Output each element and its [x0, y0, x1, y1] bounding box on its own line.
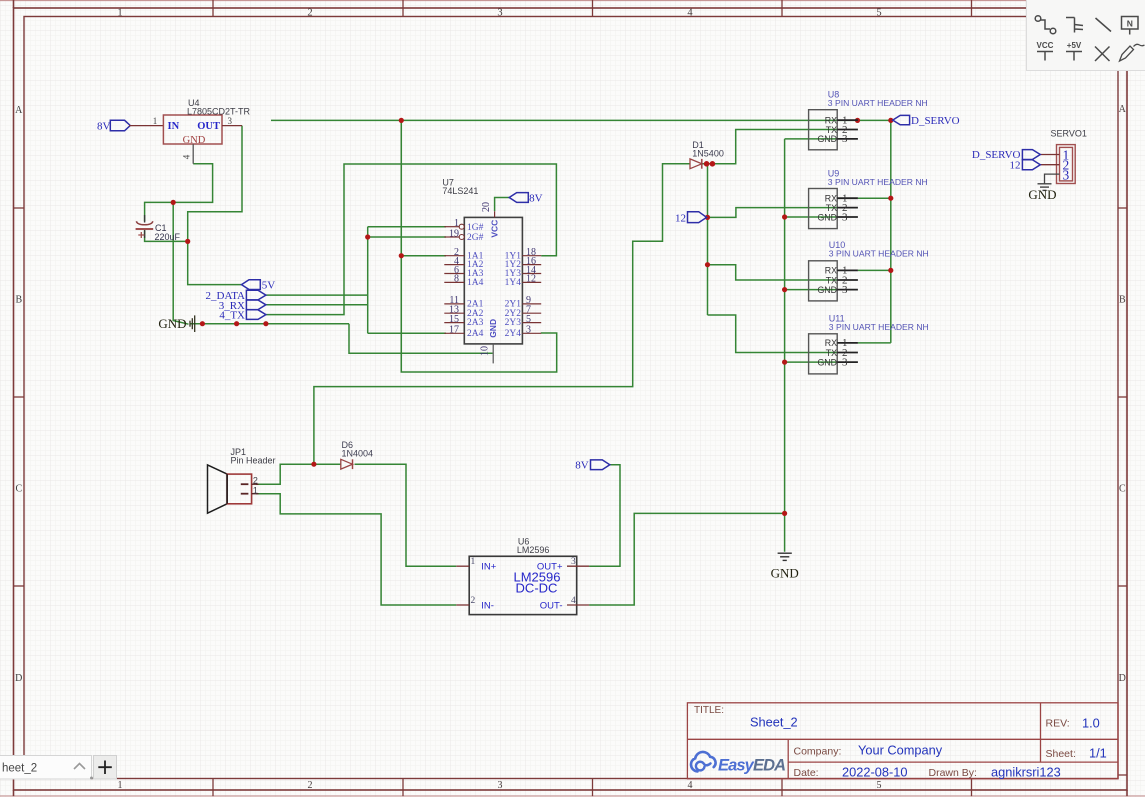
svg-text:Your Company: Your Company — [858, 743, 943, 758]
svg-text:8V: 8V — [529, 193, 543, 205]
U7 right pin stubs — [522, 256, 541, 334]
wire 12 net to U9 TX — [708, 208, 838, 218]
svg-text:+5V: +5V — [1067, 41, 1082, 50]
svg-text:2022-08-10: 2022-08-10 — [842, 765, 907, 780]
pin3 wire to gnd — [1045, 174, 1060, 183]
svg-text:IN+: IN+ — [481, 562, 497, 573]
svg-text:GND: GND — [817, 285, 837, 295]
wire U4 OUT to 5V flag — [188, 126, 242, 285]
regulator U4 L7805CD2T-TR — [153, 98, 251, 159]
wire D1 cathode to U8 TX — [702, 130, 837, 164]
svg-text:3: 3 — [842, 284, 848, 296]
wire pin stub U4 pin3 — [222, 125, 242, 127]
connector SERVO1 — [1041, 129, 1087, 184]
node junction U11 GND — [782, 360, 787, 365]
wire ground rail to U7 pin10 — [349, 324, 493, 354]
U7 inverting bubble pin 19 — [459, 235, 464, 240]
svg-text:GND: GND — [1028, 187, 1056, 202]
svg-text:3: 3 — [571, 557, 576, 567]
svg-text:1N4004: 1N4004 — [342, 449, 374, 459]
wire pin stub U4 pin4 — [192, 144, 194, 164]
diode D6 1N4004 — [341, 440, 373, 469]
wire C1 bottom to 5V net junction — [145, 231, 188, 242]
wire U7 pin2 branch — [401, 255, 446, 257]
capacitor C1 220uF — [136, 215, 181, 242]
wire D6 cathode to U6 IN+ — [355, 464, 457, 566]
U8 pin labels RX TX GND — [817, 115, 837, 144]
svg-text:3 PIN UART HEADER NH: 3 PIN UART HEADER NH — [828, 98, 928, 108]
speaker body — [208, 465, 228, 513]
node junction 12 net U10 branch — [705, 262, 710, 267]
svg-text:4: 4 — [182, 154, 192, 159]
svg-text:8: 8 — [454, 274, 459, 285]
svg-text:Pin Header: Pin Header — [231, 456, 276, 466]
wire 12 net to U10 TX — [708, 265, 838, 280]
U9 pin labels RX TX GND — [817, 194, 837, 223]
svg-text:1: 1 — [253, 485, 258, 495]
U11 pin labels RX TX GND — [817, 338, 837, 367]
port 4_TX flag — [219, 310, 266, 322]
svg-text:DC-DC: DC-DC — [516, 581, 558, 596]
port D_SERVO flag at SERVO1 — [972, 149, 1040, 161]
svg-text:5V: 5V — [262, 280, 276, 292]
node junction U10 GND — [782, 287, 787, 292]
svg-text:3: 3 — [1063, 168, 1070, 183]
wire 3_RX flag to enable vertical — [266, 304, 368, 306]
svg-text:2: 2 — [471, 596, 476, 606]
svg-text:2Y4: 2Y4 — [505, 329, 522, 339]
svg-text:L7805CD2T-TR: L7805CD2T-TR — [187, 107, 251, 117]
svg-text:2: 2 — [308, 780, 313, 791]
svg-text:B: B — [1119, 295, 1126, 306]
svg-text:20: 20 — [481, 202, 492, 212]
pin header JP1 — [208, 447, 276, 513]
svg-text:A: A — [15, 105, 23, 116]
ground symbol SERVO1 earth — [1038, 184, 1052, 191]
U10 pin stubs — [837, 270, 858, 289]
svg-text:1.0: 1.0 — [1082, 716, 1100, 731]
svg-text:12: 12 — [675, 213, 686, 225]
EasyEDA logo — [691, 752, 786, 775]
uart header U9 — [809, 169, 928, 229]
svg-text:RX: RX — [825, 266, 837, 276]
U7 pin 10 stub — [492, 344, 494, 364]
wire U8 GND to ground vertical — [785, 138, 838, 140]
SERVO1 body — [1057, 145, 1076, 184]
svg-text:3 PIN UART HEADER NH: 3 PIN UART HEADER NH — [829, 249, 929, 259]
icon pencil tool — [1120, 44, 1145, 61]
U7 left pin stubs — [444, 227, 464, 334]
ground symbol right earth — [778, 553, 792, 560]
icon +5V symbol — [1066, 52, 1082, 61]
port 12 flag near D1 — [675, 212, 707, 225]
node junction 12 flag tip — [705, 215, 710, 220]
svg-text:220uF: 220uF — [155, 232, 181, 242]
U8 pin numbers 1 2 3 — [842, 114, 848, 145]
icon netlabel tool — [1122, 17, 1139, 35]
node junction GND net at C1 top — [171, 200, 176, 205]
buffer U7 74LS241 — [442, 178, 541, 364]
wire JP1 pin1 to U6 IN- — [256, 494, 456, 605]
wire D6 junction up to D1 anode — [314, 164, 690, 464]
wire top line to U7 pin2 and loop to pin3 — [401, 120, 556, 372]
svg-text:1: 1 — [117, 7, 122, 18]
svg-text:RX: RX — [825, 338, 837, 348]
svg-text:Sheet:: Sheet: — [1046, 748, 1076, 760]
svg-text:3 PIN UART HEADER NH: 3 PIN UART HEADER NH — [828, 177, 928, 187]
svg-text:1/1: 1/1 — [1089, 746, 1107, 761]
svg-text:A: A — [1119, 104, 1127, 115]
svg-text:heet_2: heet_2 — [2, 763, 37, 775]
svg-text:3: 3 — [497, 7, 502, 18]
svg-text:Sheet_2: Sheet_2 — [750, 715, 798, 730]
svg-text:2A3: 2A3 — [467, 318, 484, 328]
wire D_SERVO to U11 RX — [858, 342, 891, 344]
node junction C1 bottom 5V net — [185, 239, 190, 244]
wire 4_TX flag up and over to U7 pin 18 — [266, 164, 557, 315]
svg-text:1Y4: 1Y4 — [505, 278, 522, 288]
icon wire tool — [1035, 16, 1056, 34]
icon line tool — [1096, 18, 1112, 32]
wire net 8V-rail top long line U4 area to U8 RX — [271, 119, 858, 121]
U10 pin numbers 1 2 3 — [842, 265, 848, 296]
wire 12 net to U11 TX — [708, 315, 838, 353]
svg-text:3 PIN UART HEADER NH: 3 PIN UART HEADER NH — [829, 322, 929, 332]
wire U11 GND branch — [785, 361, 838, 363]
node junction D_SERVO flag — [888, 118, 893, 123]
svg-text:19: 19 — [449, 228, 459, 239]
svg-text:GND: GND — [771, 566, 799, 581]
node junction D1 cathode b — [710, 161, 716, 167]
dcdc U6 LM2596 — [456, 536, 589, 614]
svg-text:2G#: 2G# — [467, 233, 484, 243]
svg-text:Drawn By:: Drawn By: — [929, 767, 977, 779]
svg-text:TX: TX — [826, 275, 837, 285]
U8 pin stubs — [837, 120, 858, 139]
U7 pin numbers left — [449, 218, 459, 336]
svg-text:GND: GND — [488, 319, 498, 338]
wire ground vertical right side — [784, 139, 786, 552]
svg-text:GND: GND — [817, 357, 837, 367]
wire U4 GND pin to C1 top — [145, 164, 213, 222]
wire ground to U6 OUT- — [589, 513, 785, 605]
svg-text:4: 4 — [571, 596, 576, 606]
svg-text:8V: 8V — [575, 460, 589, 472]
node junction ground rail 3 — [263, 321, 268, 326]
title block — [687, 703, 1118, 780]
svg-text:3: 3 — [227, 116, 232, 126]
svg-text:3: 3 — [498, 780, 503, 791]
svg-text:OUT-: OUT- — [540, 600, 563, 611]
sheet tab bottom left — [0, 756, 117, 780]
svg-text:IN: IN — [168, 121, 180, 132]
svg-text:GND: GND — [183, 135, 206, 146]
svg-text:EasyEDA: EasyEDA — [718, 757, 786, 775]
node junction U9 RX — [888, 196, 893, 201]
svg-text:1: 1 — [153, 116, 158, 126]
svg-text:10: 10 — [480, 346, 491, 356]
svg-text:D: D — [15, 673, 22, 684]
wire ground rail — [190, 323, 349, 325]
svg-text:GND: GND — [817, 134, 837, 144]
svg-text:5: 5 — [526, 314, 531, 325]
svg-text:Company:: Company: — [794, 746, 842, 758]
node junction U8 pin1 — [855, 118, 860, 123]
svg-text:IN-: IN- — [481, 600, 494, 611]
wire U10 GND branch — [785, 289, 838, 291]
port 8V flag at U6 — [575, 460, 610, 472]
port 5V flag — [242, 280, 276, 292]
port 8V input flag left — [97, 120, 130, 132]
icon bus entry tool — [1066, 18, 1083, 33]
wire JP1 pin2 to D6 anode and D1 — [256, 464, 341, 484]
U7 pin 20 stub — [494, 211, 496, 217]
U9 pin stubs — [837, 198, 858, 217]
wire to U7 pin 19 — [368, 236, 446, 238]
svg-text:Date:: Date: — [794, 767, 819, 779]
svg-text:5: 5 — [877, 780, 882, 791]
svg-text:4: 4 — [687, 7, 693, 18]
floating toolbar palette — [1027, 0, 1145, 71]
svg-text:VCC: VCC — [1037, 41, 1054, 50]
node junction ground rail 1 — [200, 321, 205, 326]
node junction D6 anode — [311, 462, 316, 467]
icon no-connect X — [1095, 47, 1110, 62]
svg-text:SERVO1: SERVO1 — [1051, 129, 1087, 139]
node junction U10 RX — [888, 268, 893, 273]
svg-text:1G#: 1G# — [467, 223, 484, 233]
svg-text:12: 12 — [526, 274, 536, 285]
wire to U7 pin 1 — [368, 226, 446, 228]
port 2_DATA flag — [206, 290, 266, 302]
icon VCC symbol — [1037, 52, 1053, 61]
port 8V flag at U7 VCC — [509, 193, 542, 205]
wire D_SERVO vertical — [890, 120, 892, 343]
node junction U7 pin19 — [365, 234, 370, 239]
svg-text:D: D — [1119, 673, 1126, 684]
svg-text:B: B — [15, 295, 22, 306]
wire U9 GND branch — [785, 216, 838, 218]
node junction D1 cathode a — [704, 161, 710, 167]
wire GND branch down to ground rail — [173, 202, 188, 324]
svg-text:N: N — [1127, 19, 1133, 29]
svg-text:GND: GND — [817, 212, 837, 222]
port D_SERVO flag top — [893, 115, 960, 127]
svg-text:C: C — [1119, 484, 1126, 495]
svg-text:3: 3 — [842, 356, 848, 368]
svg-text:5: 5 — [876, 7, 881, 18]
wire U8 RX to D_SERVO flag — [858, 119, 891, 121]
svg-text:2: 2 — [253, 476, 258, 486]
svg-text:VCC: VCC — [490, 220, 500, 238]
wire U6 OUT+ to 8V flag — [589, 465, 620, 567]
U11 pin stubs — [837, 343, 858, 362]
uart header U11 — [809, 314, 929, 374]
U7 pin labels — [467, 220, 521, 339]
wire enable vertical pin1 to pin17 — [367, 227, 369, 334]
svg-text:2Y3: 2Y3 — [505, 318, 522, 328]
diode D1 1N5400 — [690, 140, 724, 169]
svg-text:TITLE:: TITLE: — [694, 705, 724, 716]
svg-text:agnikrsri123: agnikrsri123 — [991, 765, 1061, 780]
svg-text:1: 1 — [471, 557, 476, 567]
svg-text:4: 4 — [688, 780, 693, 791]
svg-text:12: 12 — [1010, 159, 1021, 171]
port 12 flag at SERVO1 — [1010, 159, 1041, 171]
U9 pin numbers 1 2 3 — [842, 193, 848, 224]
node junction ground rail 2 — [234, 321, 239, 326]
wire to U7 pin 17 — [368, 332, 446, 334]
node junction U7 pin2 — [399, 253, 404, 258]
wire D1 net vertical through 12 flag — [707, 164, 709, 315]
svg-text:LM2596: LM2596 — [517, 545, 550, 555]
svg-text:74LS241: 74LS241 — [442, 186, 478, 196]
svg-text:C: C — [15, 484, 22, 495]
svg-text:4_TX: 4_TX — [219, 310, 245, 322]
U7 inverting bubble pin 1 — [459, 224, 464, 229]
svg-text:1A4: 1A4 — [467, 278, 484, 288]
svg-text:17: 17 — [449, 325, 459, 336]
svg-text:8V: 8V — [97, 121, 111, 133]
uart header U8 — [809, 90, 928, 150]
svg-text:REV:: REV: — [1046, 718, 1070, 730]
node junction U9 GND — [782, 214, 787, 219]
svg-text:1: 1 — [118, 780, 123, 791]
svg-text:GND: GND — [158, 316, 186, 331]
wire U7 VCC pin20 to 8V flag — [495, 198, 510, 212]
wire D_SERVO to U10 RX — [858, 269, 891, 271]
node junction top line at U7 column — [399, 118, 404, 123]
svg-text:3: 3 — [842, 133, 848, 145]
svg-text:OUT: OUT — [197, 121, 220, 132]
U7 pin numbers right — [526, 247, 536, 336]
port 3_RX flag — [219, 300, 266, 312]
U11 pin numbers 1 2 3 — [842, 337, 848, 368]
node junction GND OUT- — [782, 511, 787, 516]
wire pin stub U4 pin1 — [129, 125, 163, 127]
svg-text:3: 3 — [526, 325, 531, 336]
uart header U10 — [809, 240, 929, 301]
wire D_SERVO to U9 RX — [858, 197, 891, 199]
ground symbol left GND rail — [190, 315, 195, 332]
svg-text:TX: TX — [826, 348, 837, 358]
svg-text:2A4: 2A4 — [467, 329, 484, 339]
svg-text:15: 15 — [449, 314, 459, 325]
svg-text:1N5400: 1N5400 — [692, 149, 724, 159]
wire 2_DATA flag to U7 enables vertical — [266, 294, 368, 296]
U10 pin labels RX TX GND — [817, 266, 837, 295]
svg-text:D_SERVO: D_SERVO — [911, 115, 960, 127]
svg-text:3: 3 — [842, 211, 848, 223]
svg-text:2: 2 — [307, 7, 312, 18]
